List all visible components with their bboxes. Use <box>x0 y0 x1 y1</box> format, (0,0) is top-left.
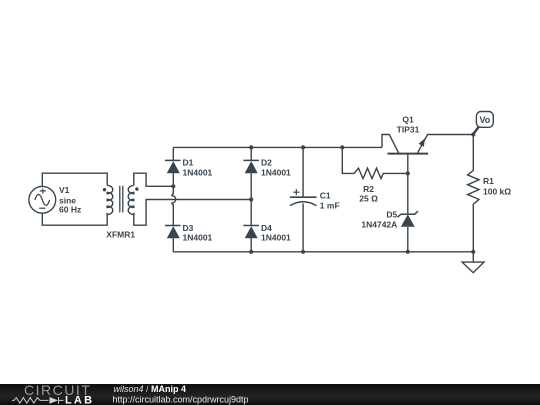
svg-text:Q1: Q1 <box>402 115 414 125</box>
svg-text:1N4001: 1N4001 <box>183 167 213 177</box>
svg-text:1N4001: 1N4001 <box>261 167 291 177</box>
svg-text:Vo: Vo <box>479 115 490 125</box>
svg-text:D2: D2 <box>261 157 272 167</box>
svg-text:1N4742A: 1N4742A <box>361 219 397 229</box>
svg-text:TIP31: TIP31 <box>397 124 420 134</box>
svg-text:C1: C1 <box>320 191 331 201</box>
svg-text:1N4001: 1N4001 <box>261 232 291 242</box>
svg-text:1N4001: 1N4001 <box>183 232 213 242</box>
svg-text:R2: R2 <box>363 184 374 194</box>
svg-text:25 Ω: 25 Ω <box>359 194 378 204</box>
svg-text:wilson4 / MAnip 4: wilson4 / MAnip 4 <box>114 384 187 394</box>
svg-text:XFMR1: XFMR1 <box>106 230 135 240</box>
svg-text:LAB: LAB <box>65 394 94 405</box>
svg-text:R1: R1 <box>483 176 494 186</box>
svg-text:V1: V1 <box>59 185 70 195</box>
svg-text:D5: D5 <box>386 210 397 220</box>
svg-text:1 mF: 1 mF <box>320 200 340 210</box>
svg-text:100 kΩ: 100 kΩ <box>483 186 511 196</box>
svg-text:60 Hz: 60 Hz <box>59 205 81 215</box>
svg-text:D1: D1 <box>183 157 194 167</box>
svg-text:http://circuitlab.com/cpdrwrcu: http://circuitlab.com/cpdrwrcuj9dtp <box>113 394 249 404</box>
